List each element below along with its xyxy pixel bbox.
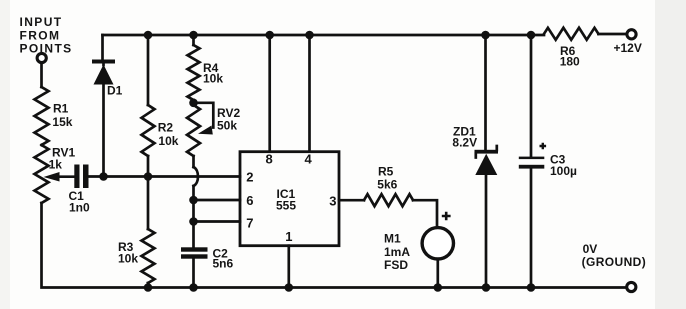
svg-text:M1: M1 [384, 232, 401, 246]
wire IC1 pin 1 to ground [287, 246, 290, 288]
node R2 top rail junction [144, 31, 153, 40]
svg-text:5n6: 5n6 [213, 257, 234, 271]
diode D1 [92, 60, 123, 177]
svg-text:FROM: FROM [20, 29, 61, 43]
svg-text:1k: 1k [49, 158, 63, 172]
node R4 / RV2 junction [189, 99, 198, 108]
node 0V ground terminal [582, 242, 647, 292]
wire top supply rail [103, 35, 545, 61]
wire bottom ground rail [42, 203, 627, 288]
svg-text:INPUT: INPUT [20, 15, 63, 29]
node pin6 junction [189, 196, 198, 205]
capacitor C2 [181, 247, 234, 288]
svg-text:180: 180 [560, 55, 580, 69]
svg-text:R5: R5 [378, 165, 394, 179]
svg-text:FSD: FSD [384, 258, 408, 272]
svg-text:(GROUND): (GROUND) [582, 255, 647, 269]
svg-text:R1: R1 [53, 102, 69, 116]
resistor R1 [35, 87, 73, 145]
node pin4 rail junction [305, 31, 314, 40]
svg-text:4: 4 [305, 152, 313, 167]
wire R6 to +12V terminal [598, 33, 626, 36]
resistor R6 [544, 28, 598, 69]
svg-text:1mA: 1mA [384, 245, 410, 259]
capacitor C1 [69, 165, 91, 215]
wire rail to IC1 pin 8 [268, 35, 271, 152]
svg-text:1n0: 1n0 [69, 201, 90, 215]
node input terminal [37, 53, 46, 62]
node pin7 junction [189, 217, 198, 226]
wire R5 to meter M1 [413, 200, 437, 226]
svg-text:0V: 0V [583, 242, 598, 256]
wire M1 to ground [436, 259, 439, 288]
svg-text:15k: 15k [52, 115, 72, 129]
resistor R3 [118, 177, 155, 288]
wire pin6 node down to pin7 node [192, 200, 195, 222]
wire rail to R4 [192, 35, 195, 45]
wire pin7 node to IC1 pin 7 [194, 220, 241, 223]
node D1 / C1 junction [99, 172, 108, 181]
svg-text:50k: 50k [217, 119, 237, 133]
op-amp U1 IC1 555 timer body [240, 152, 339, 246]
svg-text:R2: R2 [158, 121, 174, 135]
node ZD1 rail junction [481, 31, 490, 40]
resistor R5 [364, 165, 413, 207]
node R4 top rail junction [189, 31, 198, 40]
svg-text:10k: 10k [158, 134, 178, 148]
zener diode ZD1 [452, 125, 498, 288]
capacitor C3 (electrolytic) [519, 143, 577, 288]
svg-text:+12V: +12V [614, 41, 642, 55]
svg-text:2: 2 [246, 170, 253, 185]
node C2 ground junction [189, 283, 198, 292]
node R3 ground junction [144, 283, 153, 292]
node C3 rail junction [527, 31, 536, 40]
node M1 ground junction [434, 283, 443, 292]
svg-text:D1: D1 [107, 84, 123, 98]
wire input terminal to R1 [40, 63, 43, 87]
resistor R2 [142, 105, 179, 176]
potentiometer RV1 [35, 145, 76, 203]
wire IC1 pin 3 to R5 [339, 199, 364, 202]
node R2 / R3 / pin2 junction [144, 172, 153, 181]
wire C1 to pin 2 of IC1 [89, 175, 241, 178]
svg-text:6: 6 [246, 193, 253, 208]
node C3 ground junction [527, 283, 536, 292]
svg-text:8: 8 [266, 152, 273, 167]
svg-text:7: 7 [246, 216, 253, 231]
node pin8 rail junction [265, 31, 274, 40]
svg-text:555: 555 [276, 199, 296, 213]
svg-text:5k6: 5k6 [377, 178, 397, 192]
node ZD1 ground junction [482, 283, 491, 292]
wire rail to ZD1 [484, 35, 487, 150]
svg-text:10k: 10k [203, 72, 223, 86]
wire rail to IC1 pin 4 [308, 35, 311, 152]
wire rail to C3 [530, 35, 533, 157]
potentiometer RV2 [187, 100, 240, 156]
wire RV2 to pin6 node with hop over pin2 wire [194, 156, 199, 200]
svg-text:10k: 10k [118, 252, 138, 266]
svg-text:1: 1 [285, 229, 292, 244]
node input label [20, 15, 73, 56]
node pin1 ground junction [285, 283, 294, 292]
svg-text:3: 3 [329, 194, 336, 209]
svg-text:POINTS: POINTS [20, 42, 73, 56]
wire pin6 node to IC1 pin 6 [194, 199, 241, 202]
wire rail to R2 [147, 35, 150, 105]
node +12V terminal [614, 30, 642, 55]
svg-text:8.2V: 8.2V [452, 136, 477, 150]
svg-text:100µ: 100µ [550, 164, 577, 178]
wire pin7 node down to C2 [192, 222, 195, 249]
meter M1 [384, 212, 453, 272]
resistor R4 [188, 45, 224, 100]
